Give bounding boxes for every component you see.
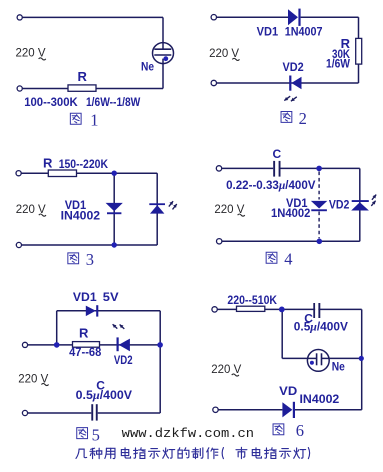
svg-text:R: R — [79, 326, 89, 341]
svg-text:1: 1 — [90, 110, 98, 129]
svg-text:VD2: VD2 — [114, 353, 133, 367]
svg-text:47--68: 47--68 — [69, 345, 102, 359]
svg-text:VD1: VD1 — [257, 25, 279, 39]
svg-text:4: 4 — [284, 249, 292, 268]
svg-text:VD2: VD2 — [283, 60, 304, 74]
svg-text:220 V: 220 V — [211, 364, 241, 376]
svg-text:100--300K: 100--300K — [24, 95, 78, 109]
svg-text:Ne: Ne — [332, 359, 345, 373]
svg-text:3: 3 — [86, 250, 94, 269]
svg-text:VD2: VD2 — [329, 197, 350, 211]
svg-text:2: 2 — [299, 109, 307, 128]
svg-text:R: R — [78, 69, 88, 84]
svg-text:IN4002: IN4002 — [300, 392, 340, 406]
svg-text:VD1: VD1 — [73, 290, 97, 304]
svg-text:IN4002: IN4002 — [61, 209, 101, 223]
svg-text:0.22--0.33μ/400V: 0.22--0.33μ/400V — [226, 178, 315, 192]
svg-text:1/6W: 1/6W — [326, 57, 351, 71]
svg-text:R: R — [43, 156, 53, 171]
svg-text:www.dzkfw.com.cn: www.dzkfw.com.cn — [122, 426, 254, 441]
svg-text:0.5μ/400V: 0.5μ/400V — [76, 388, 132, 402]
svg-text:VD: VD — [279, 384, 297, 398]
svg-text:1/6W--1/8W: 1/6W--1/8W — [86, 95, 141, 109]
svg-text:5V: 5V — [103, 290, 119, 304]
svg-text:150--220K: 150--220K — [59, 157, 109, 171]
svg-text:220--510K: 220--510K — [227, 293, 277, 307]
svg-text:6: 6 — [296, 421, 304, 440]
svg-text:5: 5 — [92, 426, 100, 445]
svg-text:Ne: Ne — [141, 60, 154, 74]
svg-text:C: C — [273, 147, 282, 161]
svg-text:1N4002: 1N4002 — [271, 206, 311, 220]
svg-text:1N4007: 1N4007 — [285, 25, 323, 39]
svg-text:0.5μ/400V: 0.5μ/400V — [294, 319, 348, 333]
